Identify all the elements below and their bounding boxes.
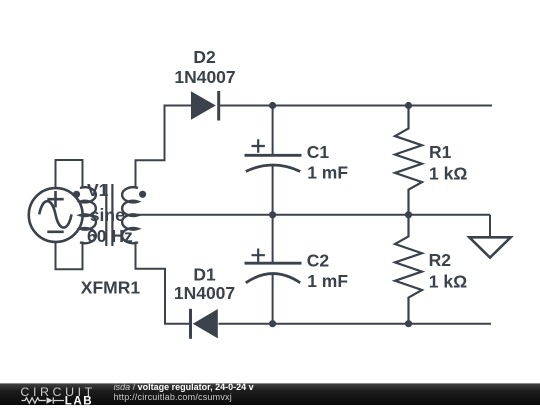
- node dot top rail / R1: [405, 102, 412, 109]
- wire C2 bottom lead: [272, 275, 274, 324]
- wire middle rail center tap: [136, 214, 491, 216]
- node dot bottom rail / R2: [405, 320, 412, 327]
- wire top rail +24V: [219, 105, 493, 107]
- svg-text:1 mF: 1 mF: [307, 163, 348, 183]
- capacitor C1: [245, 139, 302, 171]
- wire C1 top lead: [272, 106, 274, 155]
- svg-text:XFMR1: XFMR1: [81, 278, 141, 298]
- svg-text:1 kΩ: 1 kΩ: [429, 271, 467, 291]
- wire C2 top lead: [272, 215, 274, 263]
- wire transformer secondary bottom to D1 cathode: [136, 242, 191, 324]
- svg-text:LAB: LAB: [65, 395, 93, 406]
- transformer XFMR1: [80, 184, 138, 246]
- secondary polarity dot: [139, 191, 146, 198]
- primary winding: [80, 187, 96, 243]
- node dot top rail / C1: [269, 102, 276, 109]
- voltage source V1: [29, 188, 83, 242]
- svg-text:1 kΩ: 1 kΩ: [429, 164, 467, 184]
- svg-text:60 Hz: 60 Hz: [87, 226, 133, 246]
- wire C1 bottom lead: [272, 166, 274, 215]
- svg-text:D1: D1: [193, 265, 216, 285]
- svg-text:R1: R1: [429, 142, 452, 162]
- svg-text:1N4007: 1N4007: [174, 67, 235, 87]
- core bars: [106, 184, 112, 246]
- svg-text:C1: C1: [307, 142, 330, 162]
- svg-text:R2: R2: [429, 250, 452, 270]
- svg-text:isda / voltage regulator, 24-0: isda / voltage regulator, 24-0-24 v: [114, 382, 254, 392]
- resistor R1: [395, 106, 422, 215]
- node dot mid rail / C1-C2: [269, 211, 276, 218]
- svg-text:http://circuitlab.com/csumvxj: http://circuitlab.com/csumvxj: [114, 392, 232, 402]
- resistor R2: [395, 215, 422, 324]
- diode D1: [191, 309, 218, 339]
- primary polarity dot: [73, 191, 80, 198]
- diode D2: [191, 91, 219, 121]
- svg-text:1 mF: 1 mF: [307, 271, 348, 291]
- footer bar: [0, 384, 540, 406]
- wire V1 top to transformer primary top: [56, 160, 83, 188]
- node dot mid rail / R1-R2: [405, 211, 412, 218]
- wire bottom rail -24V: [219, 323, 492, 325]
- wire V1 bottom to transformer primary bottom: [56, 242, 83, 270]
- CircuitLab logo squiggle resistor and diode: [22, 397, 65, 403]
- svg-text:sine: sine: [90, 205, 125, 225]
- wire ground stub: [489, 215, 491, 237]
- svg-text:1N4007: 1N4007: [174, 283, 235, 303]
- svg-text:D2: D2: [193, 47, 216, 67]
- node dot bottom rail / C2: [269, 320, 276, 327]
- svg-text:V1: V1: [87, 180, 109, 200]
- secondary winding: [122, 187, 138, 243]
- capacitor C2: [245, 249, 302, 283]
- wire transformer secondary top to D2 anode: [136, 106, 192, 189]
- ground: [469, 237, 510, 257]
- svg-text:C2: C2: [307, 251, 330, 271]
